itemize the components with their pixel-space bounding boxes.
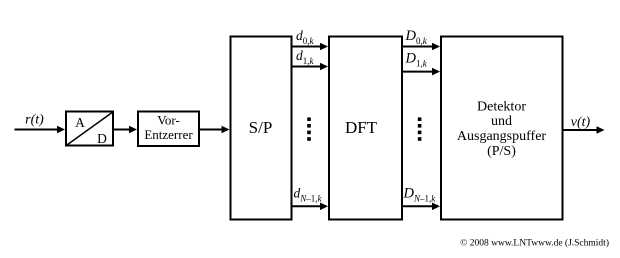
Detektor und Ausgangspuffer block xyxy=(441,37,563,220)
wire arrow D1k from DFT to Detektor xyxy=(403,68,441,76)
svg-text:Detektor: Detektor xyxy=(477,100,526,115)
wire arrow d0k from S/P to DFT xyxy=(292,43,328,51)
wire input arrow into A/D converter xyxy=(15,126,66,134)
svg-text:Vor-: Vor- xyxy=(157,113,180,128)
wire arrow D0k from DFT to Detektor xyxy=(403,43,441,51)
A/D converter block xyxy=(66,112,114,147)
wire arrow Vor-Entzerrer to S/P xyxy=(199,126,230,134)
vertical ellipsis dots between DFT and Detektor xyxy=(418,117,422,140)
wire output arrow v(t) xyxy=(563,126,605,134)
svg-text:DFT: DFT xyxy=(345,118,378,137)
DFT block xyxy=(329,37,402,220)
svg-text:(P/S): (P/S) xyxy=(487,144,516,159)
svg-text:Entzerrer: Entzerrer xyxy=(144,127,193,142)
svg-text:A: A xyxy=(75,115,85,130)
svg-text:Ausgangspuffer: Ausgangspuffer xyxy=(457,129,547,144)
wire arrow A/D to Vor-Entzerrer xyxy=(114,126,138,134)
svg-text:v(t): v(t) xyxy=(571,115,591,130)
wire arrow DN-1k from DFT to Detektor xyxy=(403,203,441,211)
svg-text:S/P: S/P xyxy=(249,118,273,137)
wire arrow dN-1k from S/P to DFT xyxy=(292,203,328,211)
vertical ellipsis dots between S/P and DFT xyxy=(307,117,311,140)
svg-text:und: und xyxy=(491,114,512,129)
svg-text:r(t): r(t) xyxy=(25,113,44,128)
wire arrow d1k from S/P to DFT xyxy=(292,63,328,71)
Vor-Entzerrer pre-equalizer block xyxy=(138,112,199,147)
svg-text:D: D xyxy=(97,131,107,146)
S/P serial-parallel converter block xyxy=(231,37,292,220)
svg-text:© 2008 www.LNTwww.de (J.Schmid: © 2008 www.LNTwww.de (J.Schmidt) xyxy=(460,238,609,249)
